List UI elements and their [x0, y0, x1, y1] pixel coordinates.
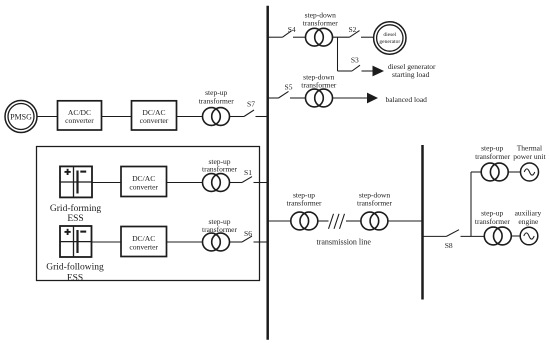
svg-text:balanced load: balanced load — [385, 95, 427, 104]
svg-text:Grid-following: Grid-following — [46, 261, 104, 272]
svg-text:diesel: diesel — [383, 32, 396, 38]
svg-text:transformer: transformer — [303, 19, 338, 28]
svg-text:engine: engine — [518, 217, 539, 226]
svg-text:S5: S5 — [285, 82, 293, 91]
svg-text:transformer: transformer — [357, 199, 392, 208]
svg-text:Grid-forming: Grid-forming — [50, 203, 101, 214]
svg-text:transformer: transformer — [287, 199, 322, 208]
svg-text:ESS: ESS — [67, 214, 83, 224]
svg-text:S6: S6 — [244, 229, 252, 238]
svg-text:S7: S7 — [247, 100, 255, 109]
svg-text:transformer: transformer — [202, 225, 237, 234]
svg-text:generator: generator — [379, 39, 400, 45]
svg-text:converter: converter — [65, 116, 94, 125]
svg-text:transformer: transformer — [475, 217, 510, 226]
svg-text:ESS: ESS — [67, 273, 83, 283]
svg-text:transformer: transformer — [475, 152, 510, 161]
svg-text:power unit: power unit — [513, 152, 546, 161]
svg-text:S3: S3 — [351, 55, 359, 64]
svg-text:transmission line: transmission line — [316, 237, 371, 246]
svg-text:S1: S1 — [244, 168, 252, 177]
svg-text:converter: converter — [140, 116, 169, 125]
svg-text:transformer: transformer — [301, 81, 336, 90]
svg-text:converter: converter — [129, 182, 158, 191]
svg-text:S4: S4 — [288, 25, 296, 34]
svg-text:S2: S2 — [348, 25, 356, 34]
svg-text:starting load: starting load — [392, 70, 430, 79]
svg-text:transformer: transformer — [202, 164, 237, 173]
svg-text:S8: S8 — [445, 241, 453, 250]
svg-text:transformer: transformer — [199, 96, 234, 105]
svg-text:converter: converter — [129, 242, 158, 251]
svg-text:PMSG: PMSG — [10, 112, 32, 121]
